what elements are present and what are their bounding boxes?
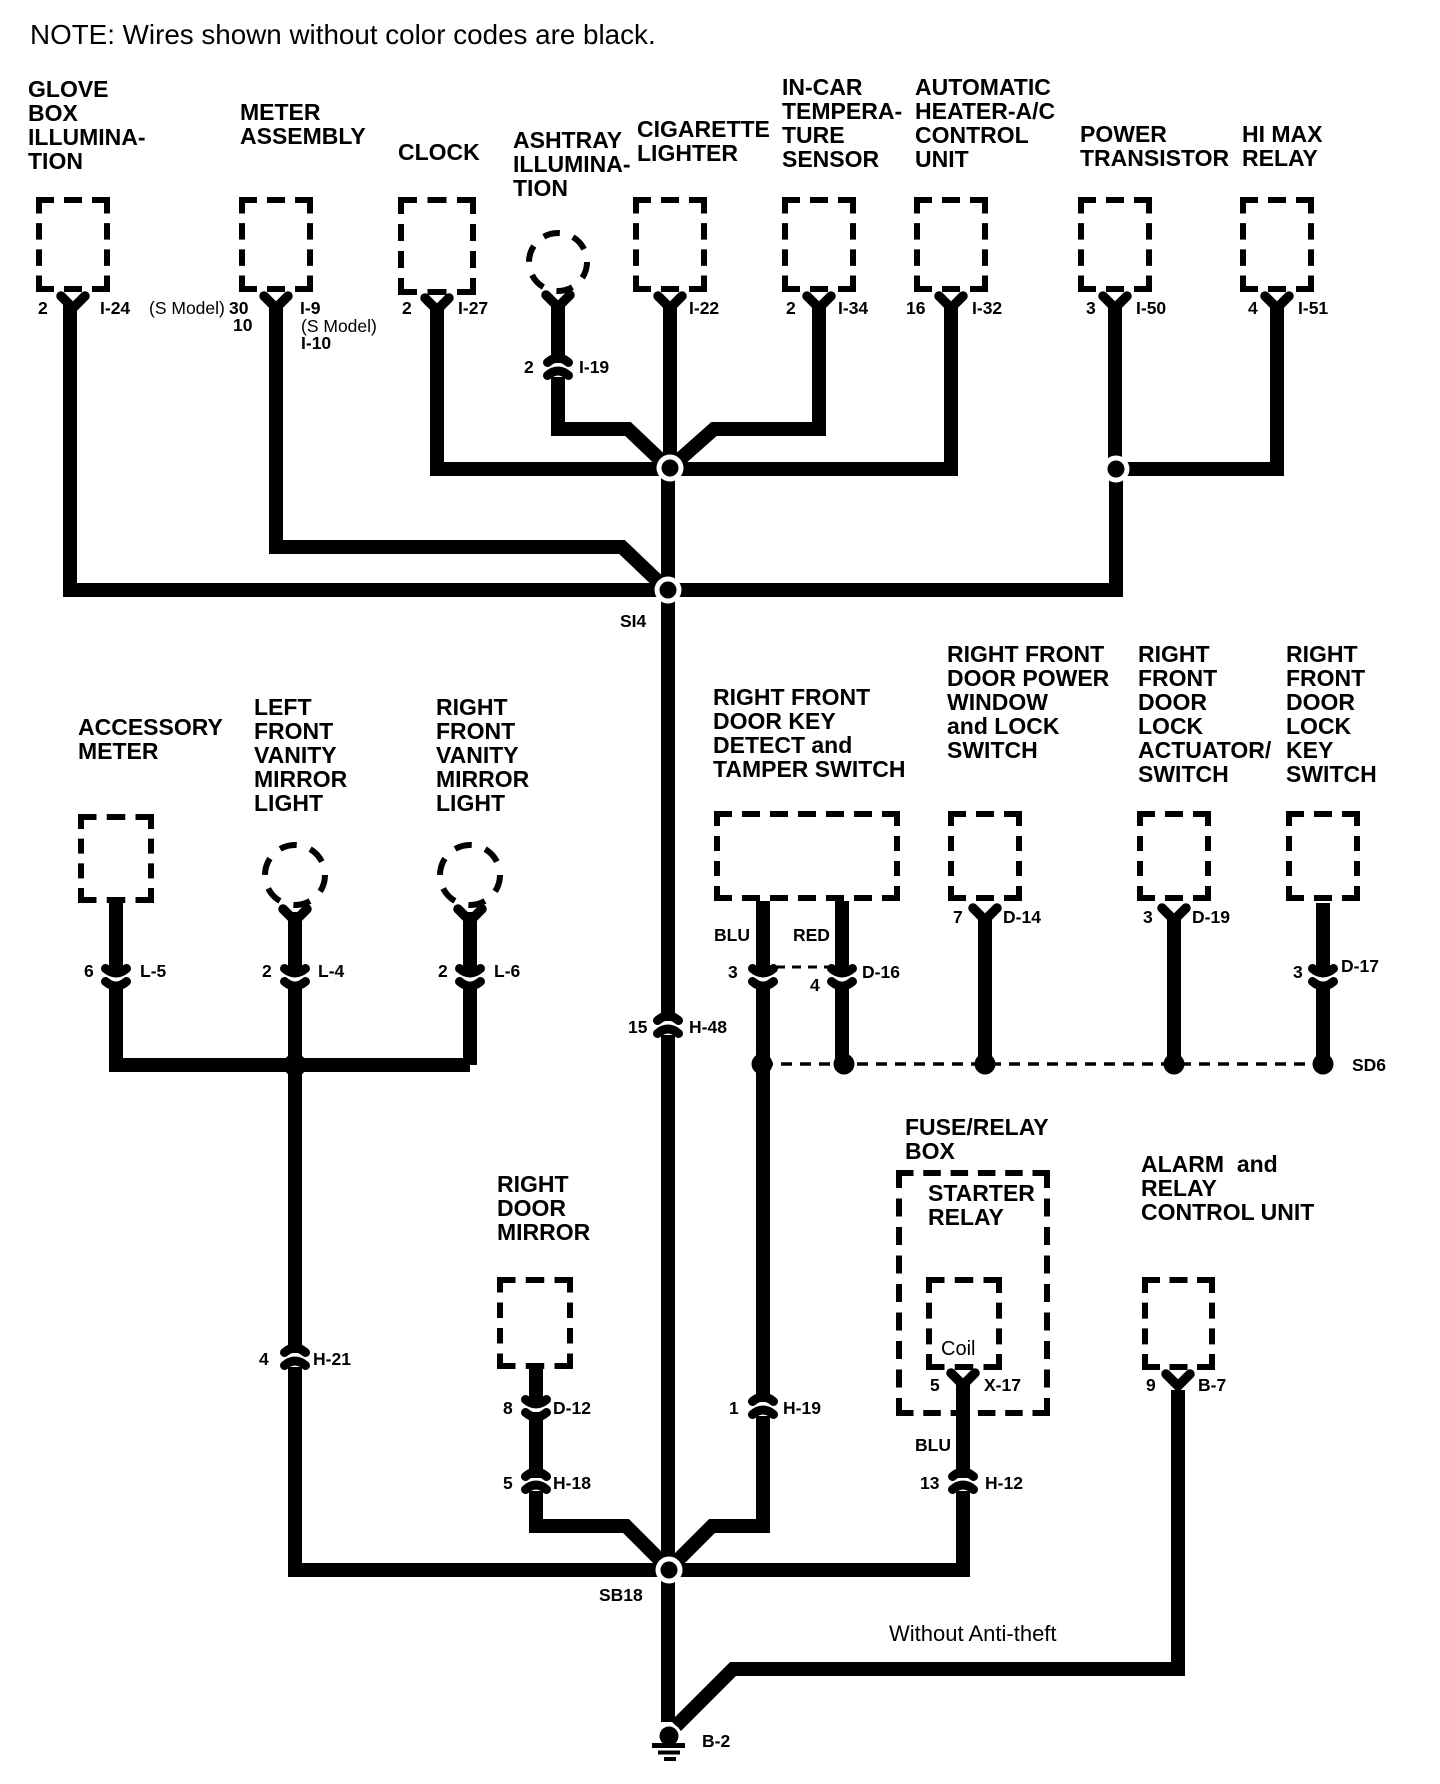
svg-text:8: 8	[503, 1398, 513, 1418]
svg-text:D-17: D-17	[1341, 956, 1379, 976]
svg-text:SI4: SI4	[620, 611, 647, 631]
svg-text:I-22: I-22	[689, 298, 719, 318]
svg-text:2: 2	[38, 298, 48, 318]
svg-text:5: 5	[503, 1473, 513, 1493]
svg-text:BLU: BLU	[714, 925, 750, 945]
svg-text:I-27: I-27	[458, 298, 488, 318]
svg-text:3: 3	[1293, 962, 1303, 982]
svg-text:15: 15	[628, 1017, 648, 1037]
svg-text:SD6: SD6	[1352, 1055, 1386, 1075]
svg-text:SB18: SB18	[599, 1585, 643, 1605]
svg-text:5: 5	[930, 1375, 940, 1395]
svg-text:4: 4	[259, 1349, 269, 1369]
svg-text:L-5: L-5	[140, 961, 167, 981]
svg-text:D-19: D-19	[1192, 907, 1230, 927]
svg-text:I-50: I-50	[1136, 298, 1166, 318]
svg-text:D-16: D-16	[862, 962, 900, 982]
svg-text:X-17: X-17	[984, 1375, 1021, 1395]
svg-text:HI MAXRELAY: HI MAXRELAY	[1242, 121, 1323, 171]
svg-text:(S Model): (S Model)	[301, 316, 377, 336]
svg-text:B-7: B-7	[1198, 1375, 1226, 1395]
svg-text:H-18: H-18	[553, 1473, 591, 1493]
svg-text:CLOCK: CLOCK	[398, 139, 480, 165]
svg-text:3: 3	[728, 962, 738, 982]
svg-text:4: 4	[810, 975, 820, 995]
svg-text:B-2: B-2	[702, 1731, 730, 1751]
svg-text:L-4: L-4	[318, 961, 345, 981]
svg-text:H-48: H-48	[689, 1017, 727, 1037]
svg-text:16: 16	[906, 298, 926, 318]
svg-text:(S Model): (S Model)	[149, 298, 225, 318]
svg-text:I-9: I-9	[300, 298, 321, 318]
svg-text:1: 1	[729, 1398, 739, 1418]
svg-text:3: 3	[1143, 907, 1153, 927]
svg-text:2: 2	[438, 961, 448, 981]
svg-text:Without Anti-theft: Without Anti-theft	[889, 1621, 1057, 1646]
svg-text:I-32: I-32	[972, 298, 1002, 318]
svg-text:NOTE: Wires shown without colo: NOTE: Wires shown without color codes ar…	[30, 19, 656, 50]
svg-text:2: 2	[262, 961, 272, 981]
svg-text:H-19: H-19	[783, 1398, 821, 1418]
svg-text:I-51: I-51	[1298, 298, 1328, 318]
svg-text:13: 13	[920, 1473, 940, 1493]
svg-text:4: 4	[1248, 298, 1258, 318]
svg-text:3: 3	[1086, 298, 1096, 318]
svg-text:D-12: D-12	[553, 1398, 591, 1418]
svg-text:I-34: I-34	[838, 298, 868, 318]
svg-text:2: 2	[524, 357, 534, 377]
svg-text:I-24: I-24	[100, 298, 130, 318]
svg-text:H-12: H-12	[985, 1473, 1023, 1493]
svg-text:I-10: I-10	[301, 333, 331, 353]
svg-text:7: 7	[953, 907, 963, 927]
svg-text:6: 6	[84, 961, 94, 981]
svg-text:10: 10	[233, 315, 253, 335]
svg-text:2: 2	[786, 298, 796, 318]
svg-text:RED: RED	[793, 925, 830, 945]
svg-text:L-6: L-6	[494, 961, 521, 981]
svg-text:H-21: H-21	[313, 1349, 351, 1369]
svg-text:2: 2	[402, 298, 412, 318]
svg-text:Coil: Coil	[941, 1338, 975, 1360]
svg-text:BLU: BLU	[915, 1435, 951, 1455]
svg-text:I-19: I-19	[579, 357, 609, 377]
svg-text:D-14: D-14	[1003, 907, 1041, 927]
svg-text:9: 9	[1146, 1375, 1156, 1395]
